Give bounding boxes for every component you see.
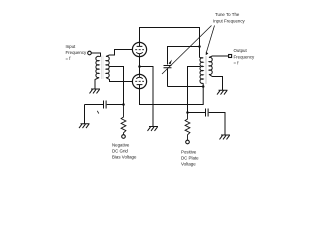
wire T2 primary center tap to B+ xyxy=(188,67,201,113)
wire T1 secondary top to V1 grid xyxy=(106,50,132,57)
tube V1 xyxy=(132,42,146,56)
grid bias line with capacitor C2 xyxy=(85,104,104,106)
capacitor C2 xyxy=(104,101,107,109)
node junction xyxy=(198,45,201,48)
ground xyxy=(79,124,90,128)
wire capacitor C3 to ground xyxy=(209,113,225,136)
tube V2 xyxy=(132,74,146,88)
ground xyxy=(217,90,228,94)
ground xyxy=(90,89,101,93)
tube V1 cathode xyxy=(136,52,143,57)
svg-text:Tune To The: Tune To The xyxy=(215,12,240,17)
tube V2 grid xyxy=(135,80,144,82)
plate terminal xyxy=(186,140,190,144)
ground xyxy=(148,127,159,131)
arrowhead at capacitor C1 xyxy=(169,60,172,65)
wire input terminal to T1 primary xyxy=(91,53,100,57)
ground xyxy=(220,135,231,139)
wire top run to tank xyxy=(139,28,200,58)
svg-text:Positive: Positive xyxy=(181,150,197,155)
wire T2 secondary top to output terminal xyxy=(209,56,228,58)
svg-text:= f: = f xyxy=(234,61,240,66)
wire capacitor C1 to tank bottom xyxy=(167,69,169,87)
transformer T2 secondary winding xyxy=(209,57,212,74)
wire cathodes to ground xyxy=(140,67,154,127)
transformer T1 core xyxy=(102,56,103,80)
wire T2 primary top hook xyxy=(200,57,204,60)
node junction xyxy=(202,85,205,88)
svg-text:Frequency: Frequency xyxy=(66,50,88,55)
wire tank top to variable capacitor xyxy=(168,47,200,65)
wire V1 plate up xyxy=(139,28,141,43)
transformer T1 secondary winding xyxy=(106,56,109,77)
svg-text:DC Grid: DC Grid xyxy=(112,149,128,154)
svg-text:Input Frequency: Input Frequency xyxy=(213,19,246,24)
svg-text:Voltage: Voltage xyxy=(181,162,196,167)
wire T1 secondary center tap to bias xyxy=(109,67,124,105)
wire T1 secondary bottom to V2 grid xyxy=(106,78,132,82)
input terminal xyxy=(88,51,92,55)
resistor R1 (grid bias) xyxy=(121,105,126,135)
bypass capacitor C3 xyxy=(188,112,206,114)
svg-text:Input: Input xyxy=(66,44,77,49)
svg-text:Output: Output xyxy=(234,48,248,53)
wire V2 plate to tank bottom xyxy=(140,83,204,104)
arrowhead at T2 winding xyxy=(206,52,209,56)
wire tank bottom xyxy=(168,86,204,88)
tube V2 plate xyxy=(137,85,143,89)
node junction xyxy=(186,111,189,114)
wire T1 primary bottom to ground xyxy=(95,78,99,90)
svg-text:Frequency: Frequency xyxy=(234,55,256,60)
svg-text:Negative: Negative xyxy=(112,143,130,148)
node junction xyxy=(122,103,125,106)
resistor R2 (plate supply) xyxy=(185,113,190,141)
tube V1 plate xyxy=(137,42,143,46)
transformer T2 primary winding xyxy=(200,58,203,84)
wire capacitor C2 to bias node xyxy=(107,104,124,106)
stray tick xyxy=(97,111,99,114)
node junction xyxy=(138,65,141,68)
variable capacitor C1 xyxy=(164,66,172,68)
transformer T2 core xyxy=(205,56,206,84)
capacitor C3 plates xyxy=(206,109,209,117)
wire T2 secondary bottom to ground xyxy=(209,74,223,90)
svg-text:Bias Voltage: Bias Voltage xyxy=(112,155,137,160)
output terminal xyxy=(229,55,232,58)
svg-text:DC Plate: DC Plate xyxy=(181,156,199,161)
wire V1 cathode to V2 cathode xyxy=(139,57,141,74)
wire bias line to ground xyxy=(84,105,86,124)
svg-text:= f: = f xyxy=(66,56,72,61)
bias terminal xyxy=(122,135,126,139)
tube V2 cathode xyxy=(136,74,143,79)
tube V1 grid xyxy=(135,49,144,51)
leader arrow to capacitor xyxy=(162,26,212,75)
leader arrow to coil xyxy=(206,26,214,53)
transformer T1 primary winding xyxy=(96,56,99,77)
